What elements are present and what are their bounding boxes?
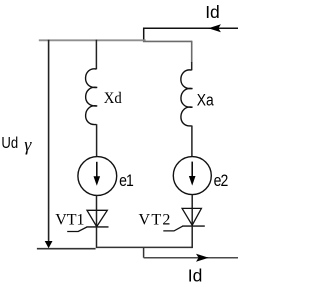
current source e2 xyxy=(173,157,211,195)
svg-text:VT2: VT2 xyxy=(139,212,172,229)
wire: right branch bottom xyxy=(191,226,193,248)
wire: bottom rail xyxy=(97,246,193,248)
wire: right branch between coil and source xyxy=(191,126,193,158)
wire: top Id feed line xyxy=(144,27,238,29)
wire: left branch between coil and source xyxy=(96,124,98,157)
arrowhead on top Id line (pointing left) xyxy=(208,24,221,32)
thyristor VT1 gate lead xyxy=(67,227,87,232)
svg-text:Id: Id xyxy=(205,2,220,22)
wire: top rail left segment xyxy=(39,39,146,41)
wire: bottom-left baseline under Ud arrow xyxy=(37,248,96,250)
current source e1 xyxy=(78,157,117,196)
thyristor VT1 triangle xyxy=(87,210,107,226)
svg-text:γ: γ xyxy=(24,134,32,154)
svg-text:e2: e2 xyxy=(214,172,228,190)
wire: stub from bottom rail down to bottom Id line xyxy=(143,247,145,257)
wire: left branch bottom xyxy=(96,227,98,248)
wire: right branch between source and thyristor xyxy=(191,195,193,226)
svg-text:Id: Id xyxy=(188,266,203,286)
arrowhead down of Ud measurement line xyxy=(45,241,53,248)
thyristor VT1 cathode bar xyxy=(87,226,109,228)
arrowhead on bottom Id line (pointing right) xyxy=(196,254,209,262)
arrow inside e2 xyxy=(191,162,193,178)
wire: stub from top Id line down to top rail xyxy=(143,28,145,41)
measurement line Ud (vertical) xyxy=(48,40,50,246)
thyristor VT2 gate lead xyxy=(163,226,182,231)
wire: bottom Id return line xyxy=(144,257,238,259)
wire: top rail right segment xyxy=(143,40,192,42)
svg-text:Xa: Xa xyxy=(197,92,214,110)
thyristor VT2 triangle xyxy=(182,208,201,225)
svg-text:e1: e1 xyxy=(119,172,133,190)
svg-text:VT1: VT1 xyxy=(55,212,84,229)
inductor Xa xyxy=(181,70,193,126)
svg-text:Xd: Xd xyxy=(104,90,122,108)
inductor Xd xyxy=(86,69,98,125)
wire: left branch between source and thyristor xyxy=(96,195,98,227)
thyristor VT2 cathode bar xyxy=(182,225,205,227)
arrow inside e1 xyxy=(96,162,98,178)
svg-text:Ud: Ud xyxy=(1,135,18,152)
wire: right branch top xyxy=(191,41,193,63)
wire: left branch top xyxy=(95,40,97,70)
